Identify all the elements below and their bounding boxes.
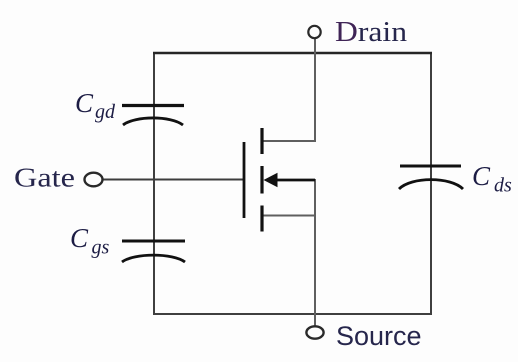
transistor M1 channel segment (source) [260, 206, 263, 232]
transistor M1 body lead [270, 179, 315, 182]
wire source tap: channel to vertical, down through bottom wire to Source terminal [262, 216, 315, 327]
terminal Source circle [306, 326, 323, 338]
wire top rail (darker) [153, 52, 432, 54]
terminal Drain circle [308, 26, 320, 38]
svg-text:gs: gs [92, 237, 110, 259]
capacitor Cds plate (curved) [399, 180, 463, 189]
capacitor Cgs plate (curved) [122, 255, 185, 262]
wire body-arrow junction vertical [314, 179, 316, 216]
svg-text:C: C [70, 223, 89, 253]
transistor M1 channel segment (drain) [260, 128, 263, 154]
svg-text:C: C [472, 161, 491, 191]
transistor M1 channel segment (body) [260, 166, 263, 194]
transistor M1 body arrow head [264, 173, 278, 187]
capacitor Cds plate (flat) [400, 165, 461, 168]
svg-text:C: C [75, 88, 94, 118]
transistor M1 gate bar [243, 142, 246, 218]
wire drain stub: Drain terminal down through top wire to MOSFET drain tap [262, 38, 315, 141]
capacitor Cgd plate (curved) [123, 118, 183, 125]
svg-text:Gate: Gate [14, 163, 75, 193]
svg-text:Drain: Drain [335, 17, 407, 48]
capacitor Cgd plate (flat) [122, 104, 184, 107]
wire gate lead: Gate terminal to MOSFET gate [102, 179, 243, 181]
svg-text:ds: ds [494, 175, 512, 197]
capacitor Cgs plate (flat) [122, 240, 185, 243]
wire outer loop rectangle (gate/drain/source net frame) [154, 53, 431, 314]
terminal Gate circle [85, 173, 103, 187]
svg-text:gd: gd [95, 101, 116, 123]
svg-text:Source: Source [336, 321, 422, 351]
